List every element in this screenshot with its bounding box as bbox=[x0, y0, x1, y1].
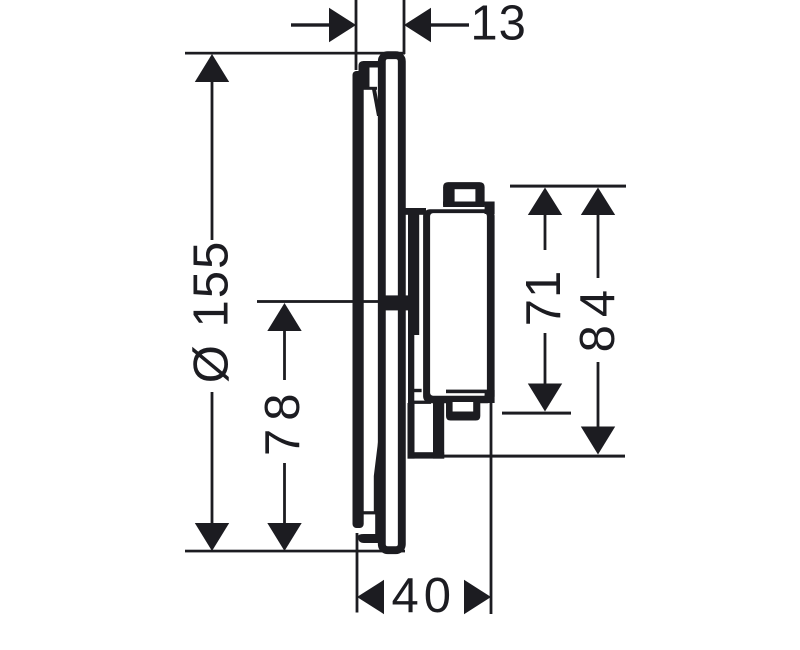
bracket left wall bbox=[408, 403, 415, 459]
dim 155 : bottom arrowhead bbox=[195, 523, 229, 551]
dim 155 : lower line segment bbox=[211, 392, 214, 523]
dim 78 : upper line segment bbox=[283, 329, 286, 380]
dim 71 : top arrowhead bbox=[528, 188, 562, 216]
dim 71 : bottom extension line bbox=[502, 412, 571, 415]
dim 13 : right tail line bbox=[431, 23, 469, 26]
dim 84 : upper line segment bbox=[597, 213, 600, 278]
bottom tab inner white bbox=[453, 402, 474, 412]
dim 155 : upper line segment bbox=[211, 80, 214, 240]
bottom tab outer bbox=[446, 396, 480, 421]
svg-text:71: 71 bbox=[517, 270, 571, 327]
handle collar bar upper bbox=[408, 208, 419, 335]
dim 71/84 : top extension line bbox=[510, 185, 626, 188]
escutcheon top cap bbox=[359, 61, 379, 90]
dim 71 : lower line segment bbox=[544, 333, 547, 385]
dim 84 : lower line segment bbox=[597, 362, 600, 427]
wall flange bar (escutcheon back edge) bbox=[353, 71, 364, 528]
dim 40 : left arrowhead bbox=[357, 580, 384, 614]
dim 155 : top arrowhead bbox=[195, 54, 229, 82]
sleeve (front cover, tall rounded rectangle) bbox=[382, 55, 402, 550]
dim 13 : right extension line bbox=[403, 0, 406, 54]
collar top connector bbox=[404, 208, 426, 215]
dim 13 : left extension line bbox=[355, 0, 358, 70]
dim 84 : top arrowhead bbox=[581, 188, 615, 216]
grip bottom-left connector line bbox=[414, 401, 431, 404]
escutcheon bottom surface bulge bbox=[374, 438, 381, 537]
bracket right wall bbox=[433, 398, 444, 459]
handle grip lower cap line bbox=[446, 390, 491, 394]
handle grip bottom-right corner bbox=[485, 390, 495, 403]
svg-text:84: 84 bbox=[571, 282, 625, 353]
dim 78 : mid extension line bbox=[257, 300, 379, 303]
handle grip outline ring bbox=[423, 209, 495, 403]
svg-text:Ø 155: Ø 155 bbox=[185, 240, 239, 383]
svg-text:78: 78 bbox=[256, 386, 310, 457]
dim 40 : left extension line bbox=[356, 533, 359, 613]
dim 40 : right extension line bbox=[490, 402, 493, 614]
dim 78 : bottom arrowhead bbox=[267, 523, 301, 551]
dim 78 : lower line segment bbox=[283, 463, 286, 523]
handle grip top-right corner bbox=[485, 202, 495, 215]
bracket bottom edge bbox=[408, 452, 445, 458]
handle collar step tick bbox=[413, 389, 422, 392]
dim 155 : top extension line bbox=[185, 52, 405, 55]
dim 40 : right arrowhead bbox=[464, 580, 491, 614]
svg-text:40: 40 bbox=[392, 569, 457, 623]
dim 71 : upper line segment bbox=[544, 213, 547, 250]
escutcheon bottom tick bbox=[363, 511, 376, 514]
dim 155 : bottom extension line bbox=[185, 550, 405, 553]
axis bar inside sleeve bbox=[378, 295, 419, 310]
escutcheon bottom cap bbox=[358, 534, 380, 543]
svg-text:13: 13 bbox=[470, 0, 527, 50]
dim 71 : bottom arrowhead bbox=[528, 384, 562, 412]
dim 84 : bottom extension line bbox=[444, 455, 625, 458]
dim 78 : top arrowhead bbox=[267, 303, 301, 331]
top tab outer bbox=[443, 182, 485, 207]
escutcheon top slant line bbox=[372, 88, 381, 116]
dim 13 : left tail line bbox=[291, 23, 329, 26]
top tab inner white bbox=[455, 189, 476, 201]
handle collar bar lower (narrow) bbox=[408, 330, 414, 403]
dim 13 : left arrowhead bbox=[329, 8, 356, 42]
dim 84 : bottom arrowhead bbox=[581, 427, 615, 455]
dim 13 : right arrowhead bbox=[404, 8, 431, 42]
escutcheon top tick bbox=[363, 87, 377, 90]
handle grip upper cap line bbox=[443, 202, 491, 206]
